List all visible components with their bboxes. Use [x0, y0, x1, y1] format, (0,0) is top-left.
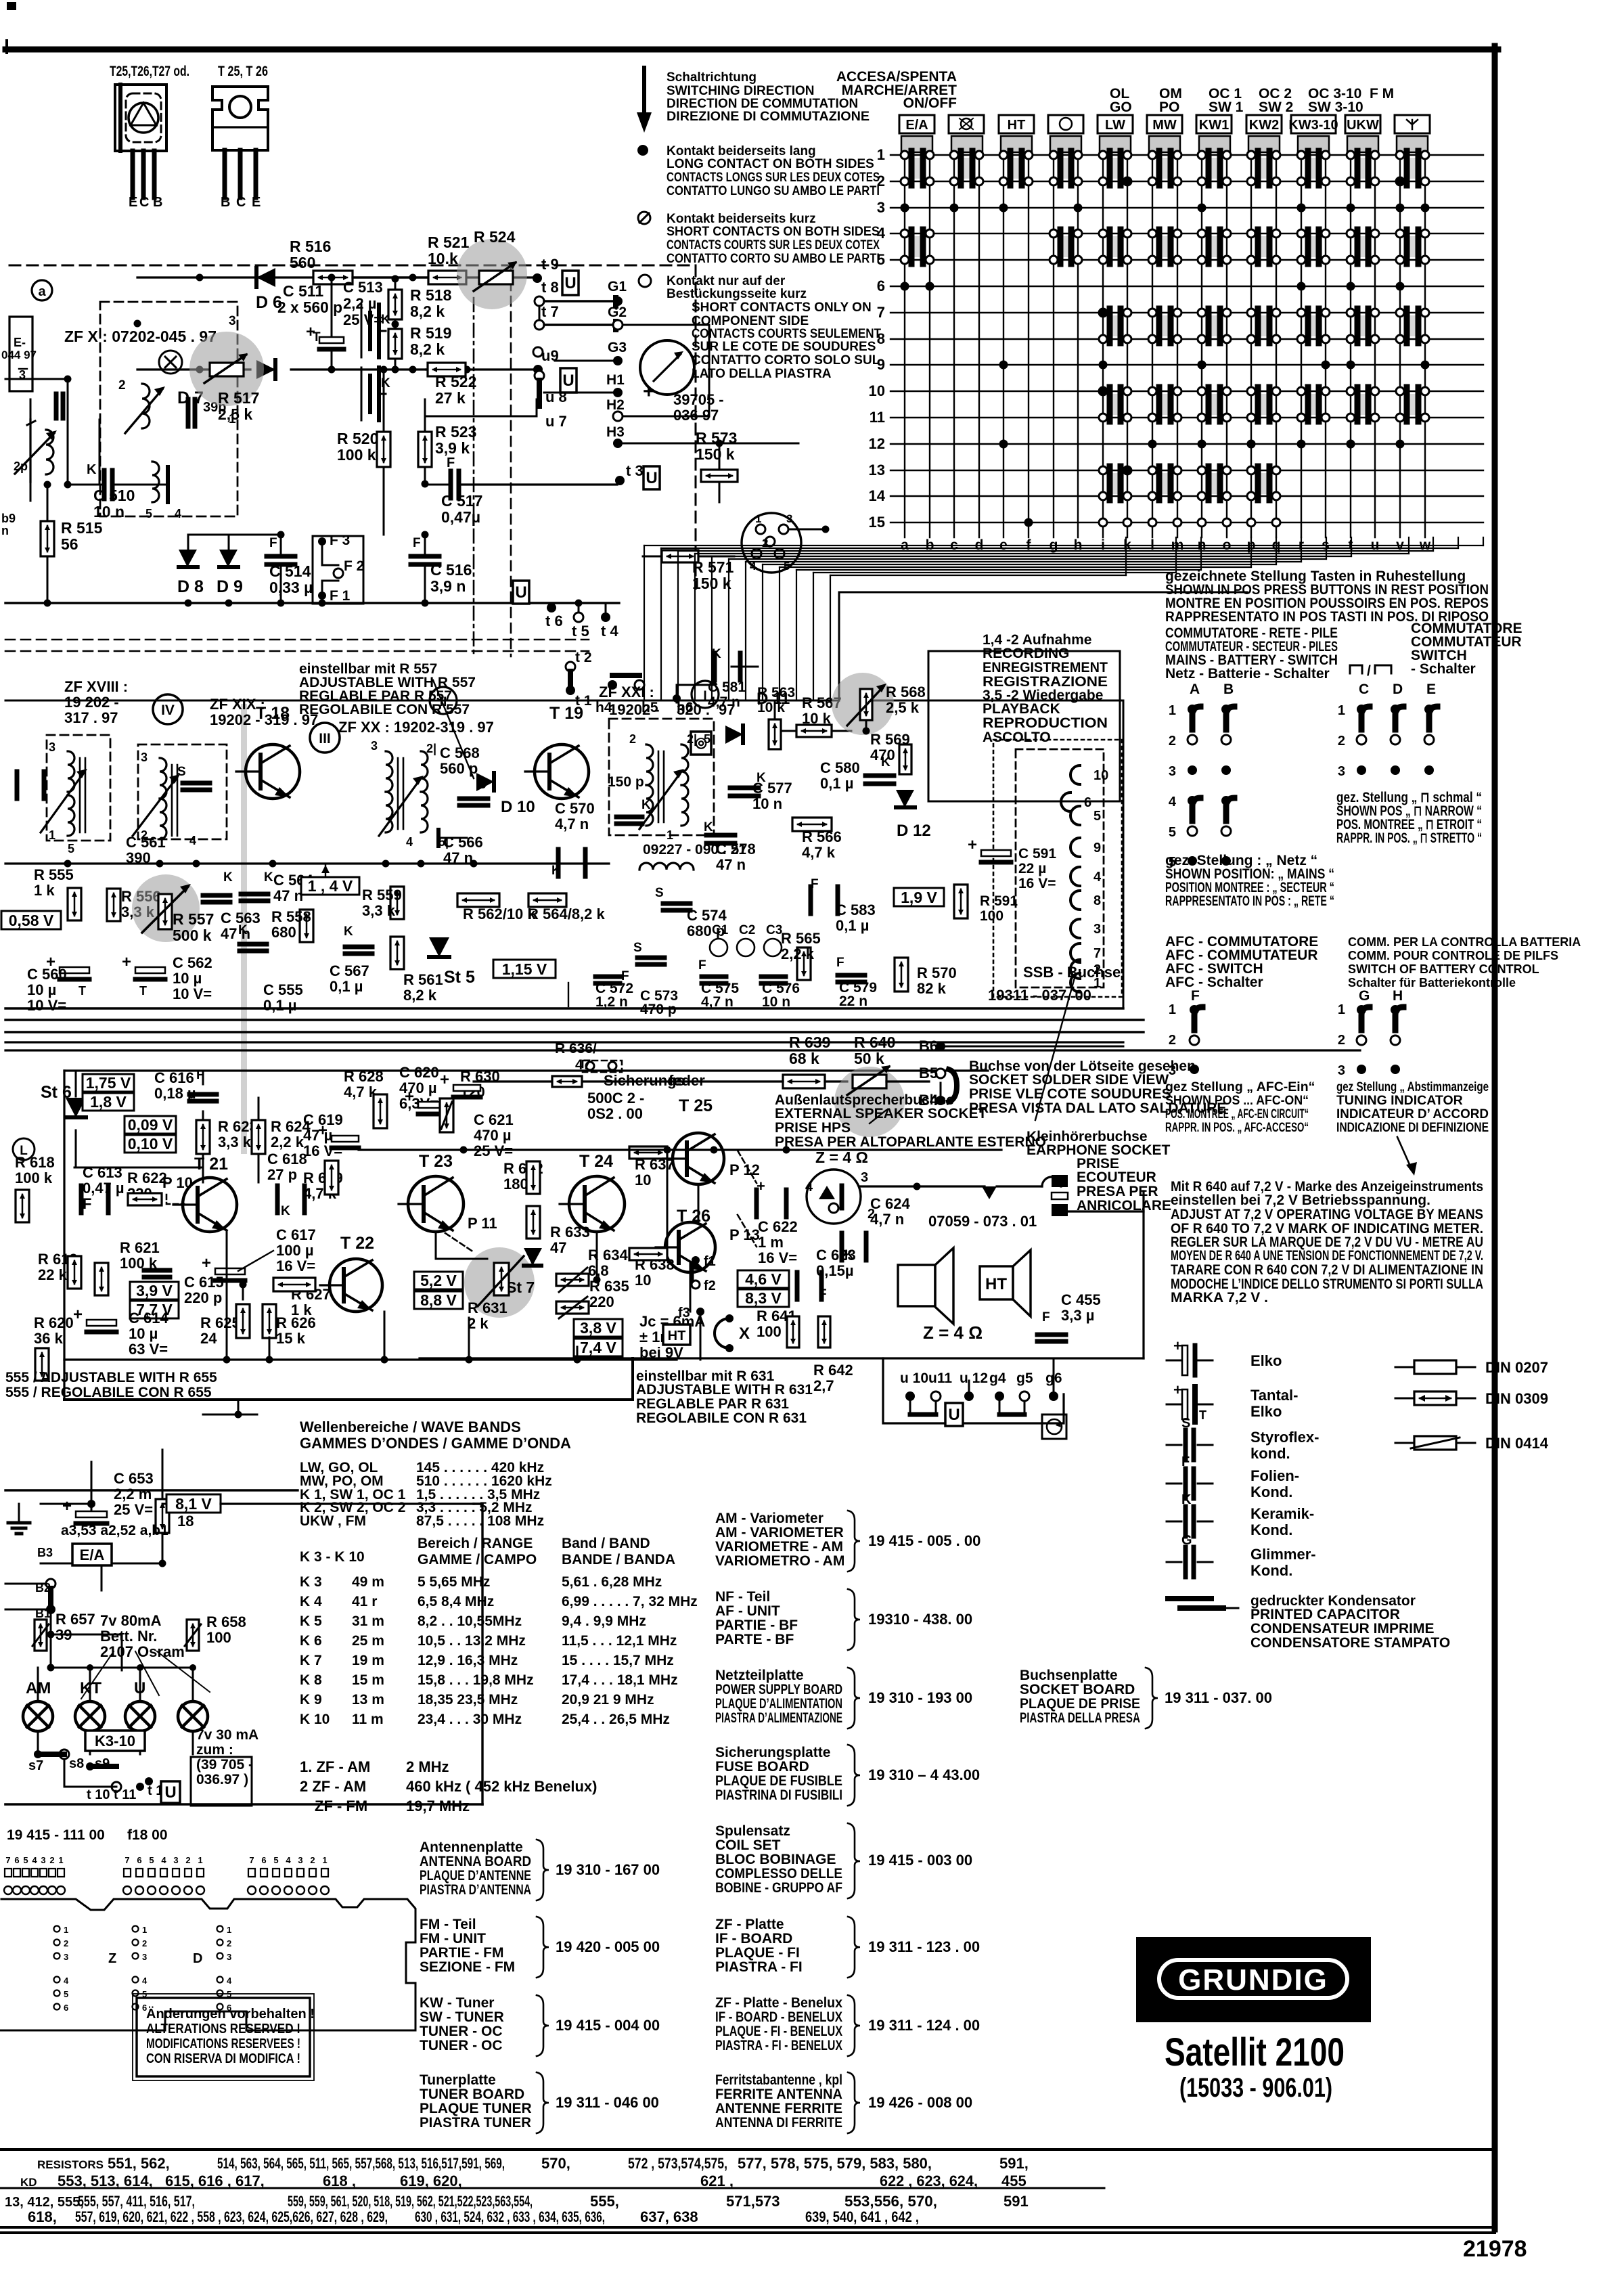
resistor R559	[362, 887, 404, 919]
svg-text:47 n: 47 n	[716, 856, 746, 873]
speaker socket text	[775, 1092, 1046, 1166]
svg-text:F: F	[269, 536, 277, 550]
svg-text:+: +	[440, 1071, 449, 1089]
svg-text:- Schalter: - Schalter	[1411, 661, 1476, 677]
terminal G3	[555, 340, 627, 365]
svg-text:Schalter für Batteriekontrol: Schalter für Batteriekontrolle	[1348, 976, 1516, 989]
svg-text:T 25, T 26: T 25, T 26	[218, 64, 268, 79]
wire after R516	[353, 274, 538, 282]
svg-text:19 311 - 037. 00: 19 311 - 037. 00	[1165, 1689, 1272, 1706]
svg-text:R 569: R 569	[870, 731, 910, 748]
svg-text:PIASTRA TUNER: PIASTRA TUNER	[420, 2115, 531, 2131]
svg-text:K 4: K 4	[300, 1594, 322, 1609]
svg-text:E/A: E/A	[905, 118, 928, 133]
svg-text:MW: MW	[1152, 118, 1177, 133]
capacitor C517	[425, 455, 617, 526]
box U t3	[644, 466, 660, 489]
legend short contact text	[667, 212, 880, 266]
svg-text:R 568: R 568	[886, 684, 926, 700]
svg-text:19 415 - 004 00: 19 415 - 004 00	[556, 2017, 660, 2034]
HT box small	[663, 1324, 690, 1345]
pin 1 label	[229, 412, 236, 426]
fm input extra wires	[5, 376, 99, 502]
svg-text:R 517: R 517	[218, 389, 259, 407]
svg-text:1 k: 1 k	[34, 882, 55, 899]
svg-text:+: +	[318, 1121, 328, 1140]
svg-text:1,75 V: 1,75 V	[86, 1074, 131, 1092]
svg-text:15 m: 15 m	[352, 1672, 384, 1688]
svg-text:19,7 MHz: 19,7 MHz	[406, 1798, 470, 1814]
svg-text:Bereich / RANGE: Bereich / RANGE	[418, 1536, 533, 1551]
svg-text:F: F	[836, 956, 844, 970]
svg-text:ZF - Platte: ZF - Platte	[715, 1917, 784, 1932]
svg-text:T 25: T 25	[679, 1096, 713, 1115]
svg-text:Spulensatz: Spulensatz	[715, 1823, 790, 1839]
speaker 2 HT	[980, 1250, 1031, 1316]
svg-text:E: E	[129, 195, 137, 210]
svg-text:0,1 µ: 0,1 µ	[330, 978, 363, 995]
svg-text:+: +	[968, 836, 977, 854]
switch matrix column letters	[901, 537, 1431, 553]
svg-text:150 k: 150 k	[696, 445, 735, 463]
ZF-AM list rows	[300, 1758, 597, 1814]
cap C613	[81, 1164, 125, 1213]
svg-text:(39 705 -: (39 705 -	[196, 1757, 253, 1773]
svg-text:TARARE CON R 640 CON 7,2 V: TARARE CON R 640 CON 7,2 V DI ALIMENTAZI…	[1171, 1262, 1483, 1278]
svg-text:3,9 k: 3,9 k	[435, 439, 470, 457]
switch matrix header buttons	[899, 115, 1430, 152]
svg-text:Ferritstabantenne , kpl: Ferritstabantenne , kpl	[715, 2072, 842, 2088]
svg-text:+: +	[73, 1306, 83, 1324]
svg-text:R 640: R 640	[854, 1033, 895, 1051]
legend battery control text	[1348, 935, 1581, 989]
svg-text:1: 1	[1169, 1002, 1176, 1017]
svg-text:C 560: C 560	[27, 966, 67, 983]
resistor R516	[290, 238, 353, 284]
svg-text:ZF XXI :: ZF XXI :	[599, 684, 654, 700]
svg-text:F: F	[1181, 1454, 1190, 1469]
svg-text:E/A: E/A	[80, 1546, 105, 1563]
svg-text:100 k: 100 k	[337, 446, 376, 464]
cap C570	[551, 800, 595, 878]
svg-text:t 10: t 10	[87, 1787, 110, 1802]
svg-text:F: F	[413, 536, 421, 550]
svg-text:U: U	[562, 372, 574, 390]
svg-text:1: 1	[198, 1855, 202, 1865]
svg-text:G: G	[1181, 1533, 1192, 1548]
terminals u10 u11 u12 g4 g5 g6	[900, 1358, 1062, 1414]
svg-text:R 618: R 618	[15, 1154, 55, 1171]
svg-text:6: 6	[261, 1855, 266, 1865]
svg-text:6: 6	[137, 1855, 141, 1865]
svg-text:H3: H3	[606, 424, 625, 440]
pot R568 blob	[832, 673, 926, 735]
resistor R567	[778, 694, 851, 737]
cap 150p	[608, 774, 651, 824]
svg-text:PIASTRA D’ANTENNA: PIASTRA D’ANTENNA	[420, 1882, 531, 1898]
box EA	[72, 1544, 112, 1565]
svg-text:R 521: R 521	[428, 233, 470, 251]
cap C617	[202, 1226, 316, 1280]
svg-text:C 618: C 618	[267, 1151, 307, 1167]
capacitor C511 trimmer upper	[361, 305, 390, 357]
cap C619	[303, 1111, 359, 1159]
svg-text:9: 9	[877, 356, 885, 373]
svg-text:R 620: R 620	[34, 1314, 74, 1331]
svg-text:2: 2	[629, 732, 636, 746]
svg-text:zum :: zum :	[196, 1742, 233, 1758]
svg-text:RECORDING: RECORDING	[983, 646, 1069, 661]
node a terminal	[32, 280, 52, 300]
svg-text:18: 18	[177, 1513, 194, 1530]
svg-text:SEZIONE - FM: SEZIONE - FM	[420, 1959, 515, 1975]
C511 label	[277, 282, 342, 316]
svg-text:8,1 V: 8,1 V	[175, 1495, 212, 1513]
satellit number	[1179, 2073, 1332, 2103]
svg-text:1: 1	[49, 828, 55, 842]
svg-text:6,99 . . . . . 7, 32 MHz: 6,99 . . . . . 7, 32 MHz	[562, 1594, 698, 1609]
svg-text:T 26: T 26	[677, 1207, 710, 1226]
svg-text:C 617: C 617	[276, 1226, 316, 1243]
svg-text:DIN 0309: DIN 0309	[1485, 1390, 1548, 1407]
svg-text:PRISE HPS: PRISE HPS	[775, 1120, 851, 1136]
svg-text:R 626: R 626	[276, 1314, 316, 1331]
svg-text:AM - VARIOMETER: AM - VARIOMETER	[715, 1525, 844, 1540]
cap C455	[1037, 1291, 1101, 1341]
electrolytic C513	[306, 274, 383, 374]
cap C579	[836, 956, 877, 1009]
svg-text:SSB - Buchse: SSB - Buchse	[1023, 964, 1121, 981]
svg-text:t 4: t 4	[601, 623, 618, 640]
svg-text:CONTACTS COURTS SUR LES DEUX C: CONTACTS COURTS SUR LES DEUX COTEX	[667, 238, 880, 252]
svg-text:C 455: C 455	[1061, 1291, 1101, 1308]
voltage 1.4V	[301, 864, 359, 895]
legend contact diagram C D E	[1338, 682, 1437, 779]
svg-text:7: 7	[249, 1855, 254, 1865]
svg-text:FM - UNIT: FM - UNIT	[420, 1931, 486, 1946]
svg-text:LATO DELLA PIASTRA: LATO DELLA PIASTRA	[692, 367, 832, 381]
svg-text:Antennenplatte: Antennenplatte	[420, 1840, 523, 1855]
svg-text:25 V=: 25 V=	[343, 311, 382, 328]
parts ferrite antenna	[715, 2072, 972, 2133]
svg-text:21978: 21978	[1463, 2236, 1527, 2262]
svg-text:St 5: St 5	[444, 968, 475, 987]
transistor T26	[656, 1207, 715, 1272]
svg-text:3: 3	[1338, 1063, 1345, 1078]
svg-text:ANTENNE FERRITE: ANTENNE FERRITE	[715, 2101, 842, 2116]
svg-text:19310 - 438. 00: 19310 - 438. 00	[868, 1611, 972, 1628]
svg-text:R 516: R 516	[290, 238, 331, 255]
cap C566	[438, 830, 483, 866]
SSB socket contacts	[1061, 765, 1108, 992]
svg-text:PLAQUE DE PRISE: PLAQUE DE PRISE	[1020, 1696, 1140, 1712]
legend commutatore switch text	[1411, 621, 1522, 677]
svg-text:K 9: K 9	[300, 1692, 322, 1708]
svg-text:4,6 V: 4,6 V	[745, 1270, 782, 1288]
svg-text:C: C	[1359, 682, 1369, 697]
resistor R633	[526, 1206, 590, 1256]
svg-text:3: 3	[49, 740, 55, 754]
lamp AM	[23, 1679, 53, 1731]
svg-text:10: 10	[869, 382, 885, 399]
cap C623	[797, 1247, 856, 1301]
cap C572	[595, 977, 633, 1010]
svg-text:220 p: 220 p	[184, 1289, 222, 1306]
svg-text:39: 39	[55, 1626, 72, 1643]
svg-text:R 634: R 634	[588, 1247, 628, 1264]
svg-text:g5: g5	[1016, 1371, 1033, 1386]
svg-text:CONTATTO CORTO SU AMBO LE PART: CONTATTO CORTO SU AMBO LE PARTI	[667, 252, 880, 266]
svg-text:2: 2	[118, 378, 126, 393]
svg-text:t 9: t 9	[541, 256, 559, 273]
svg-text:NF - Teil: NF - Teil	[715, 1589, 770, 1605]
cap C653	[62, 1470, 154, 1523]
svg-text:25 m: 25 m	[352, 1633, 384, 1649]
svg-text:7: 7	[5, 1855, 10, 1865]
resistor R623	[196, 1118, 258, 1154]
GRUNDIG logo	[1136, 1937, 1371, 2022]
legend gez stellung netz text	[1165, 853, 1334, 909]
svg-text:a: a	[38, 284, 46, 299]
svg-text:15,8 . . . 19,8 MHz: 15,8 . . . 19,8 MHz	[418, 1672, 534, 1688]
svg-text:SOCKET SOLDER SIDE VIEW: SOCKET SOLDER SIDE VIEW	[969, 1072, 1169, 1088]
svg-text:15 k: 15 k	[276, 1330, 306, 1347]
svg-text:R 520: R 520	[337, 430, 378, 447]
svg-text:ENREGISTREMENT: ENREGISTREMENT	[983, 660, 1108, 675]
svg-text:KW2: KW2	[1249, 118, 1279, 133]
svg-text:Styroflex-: Styroflex-	[1250, 1429, 1319, 1446]
legend mains battery switch text	[1165, 625, 1338, 682]
svg-text:C 623: C 623	[816, 1247, 856, 1264]
svg-text:10 k: 10 k	[757, 700, 785, 715]
svg-text:F: F	[1042, 1310, 1050, 1324]
earphone socket circle	[805, 1169, 875, 1224]
svg-text:2,7: 2,7	[813, 1377, 834, 1394]
svg-text:C 653: C 653	[114, 1470, 154, 1487]
resistor R619	[38, 1251, 108, 1295]
resistor R591	[954, 885, 1018, 924]
svg-text:K: K	[281, 1204, 290, 1218]
svg-text:49 m: 49 m	[352, 1574, 384, 1590]
legend switching direction arrow	[637, 68, 652, 133]
IF strip outline	[5, 592, 1247, 1006]
svg-text:0,33 µ: 0,33 µ	[269, 579, 313, 596]
diode D6	[256, 268, 282, 312]
wave bands list	[300, 1460, 552, 1529]
anderungen box	[133, 1994, 315, 2080]
svg-text:C 511: C 511	[283, 282, 323, 300]
svg-text:19 420 - 005 00: 19 420 - 005 00	[556, 1938, 660, 1955]
svg-text:4: 4	[406, 835, 413, 849]
svg-text:B: B	[221, 195, 230, 210]
svg-text:T 21: T 21	[194, 1155, 228, 1174]
svg-text:Z = 4 Ω: Z = 4 Ω	[815, 1149, 868, 1166]
svg-text:E-: E-	[14, 336, 26, 349]
svg-text:PIASTRA DELLA PRESA: PIASTRA DELLA PRESA	[1020, 1710, 1140, 1726]
pot R631	[468, 1256, 524, 1332]
parts coil set	[715, 1823, 972, 1898]
svg-text:0,47µ: 0,47µ	[441, 508, 480, 526]
voltage 0.09V 0.10V	[125, 1116, 176, 1153]
legend component-side contact symbol	[639, 275, 651, 287]
svg-text:PARTE - BF: PARTE - BF	[715, 1632, 794, 1647]
resistor R569	[870, 731, 911, 774]
svg-text:10,5 . . 13,2 MHz: 10,5 . . 13,2 MHz	[418, 1633, 526, 1649]
svg-text:R 625: R 625	[200, 1314, 240, 1331]
svg-text:2,2 k: 2,2 k	[781, 945, 815, 962]
svg-text:19 310 – 4 43.00: 19 310 – 4 43.00	[868, 1766, 980, 1783]
svg-text:622 , 623, 624,: 622 , 623, 624,	[880, 2173, 978, 2189]
svg-text:T 24: T 24	[579, 1152, 613, 1171]
node L circle	[13, 1138, 35, 1160]
svg-text:HT: HT	[668, 1329, 686, 1343]
voltage 0.58V	[1, 911, 61, 929]
svg-text:3: 3	[1169, 764, 1176, 779]
svg-text:1: 1	[1338, 1002, 1345, 1017]
svg-text:10: 10	[635, 1272, 651, 1289]
svg-text:F 1: F 1	[330, 588, 351, 604]
svg-text:8,2 k: 8,2 k	[410, 340, 445, 358]
svg-text:1: 1	[64, 1925, 68, 1935]
X contact	[715, 1314, 750, 1352]
svg-text:7v 30 mA: 7v 30 mA	[196, 1727, 258, 1743]
resistor R570	[895, 958, 957, 997]
svg-text:REGLABLE PAR R 631: REGLABLE PAR R 631	[636, 1396, 789, 1412]
legend AFC position text	[1165, 1079, 1315, 1135]
svg-text:19 310 - 193 00: 19 310 - 193 00	[868, 1689, 972, 1706]
svg-text:10 µ: 10 µ	[129, 1325, 158, 1342]
svg-text:C 624: C 624	[870, 1195, 910, 1212]
svg-text:GAMMES D’ONDES / GAMME D’OND: GAMMES D’ONDES / GAMME D’ONDA	[300, 1435, 571, 1452]
legend gez stellung schmal text	[1336, 790, 1482, 846]
svg-text:Wellenbereiche / WAVE BANDS: Wellenbereiche / WAVE BANDS	[300, 1419, 521, 1435]
svg-text:(15033 - 906.01): (15033 - 906.01)	[1179, 2073, 1332, 2103]
parts fm unit	[420, 1917, 660, 1978]
svg-text:R 628: R 628	[344, 1068, 384, 1085]
svg-text:0,1 µ: 0,1 µ	[263, 997, 296, 1014]
current note	[639, 1313, 705, 1361]
svg-text:C2: C2	[739, 923, 755, 937]
svg-text:MOYEN DE R 640 A UNE TENSI: MOYEN DE R 640 A UNE TENSION DE FONCTION…	[1171, 1248, 1483, 1264]
svg-text:5,61 . 6,28 MHz: 5,61 . 6,28 MHz	[562, 1574, 662, 1590]
svg-text:317 . 97: 317 . 97	[64, 709, 118, 726]
cap C560	[27, 953, 89, 1014]
svg-text:s8: s8	[69, 1756, 84, 1771]
svg-text:4: 4	[805, 1180, 813, 1195]
svg-text:1: 1	[227, 1925, 231, 1935]
resistor R564	[528, 893, 606, 922]
bottom table bottom line	[0, 2227, 1495, 2233]
capacitor legend Styroflex	[1167, 1416, 1319, 1462]
svg-text:Kontakt beiderseits lang: Kontakt beiderseits lang	[667, 144, 816, 158]
svg-text:1 , 4 V: 1 , 4 V	[308, 877, 353, 895]
resistor R563	[757, 685, 795, 749]
svg-text:12,9 . 16,3 MHz: 12,9 . 16,3 MHz	[418, 1653, 518, 1668]
legend short contact symbol	[638, 212, 650, 224]
printed capacitor legend	[1168, 1593, 1450, 1651]
svg-text:500C 2 -: 500C 2 -	[587, 1090, 644, 1107]
svg-text:KW3-10: KW3-10	[1288, 118, 1338, 133]
svg-text:INDICATEUR D’ ACCORD: INDICATEUR D’ ACCORD	[1336, 1107, 1489, 1121]
svg-text:19 415 - 005 . 00: 19 415 - 005 . 00	[868, 1532, 980, 1549]
K3-K10 table rows	[300, 1574, 698, 1727]
svg-text:3: 3	[1093, 922, 1101, 937]
svg-text:3,3 k: 3,3 k	[362, 902, 396, 919]
svg-text:2: 2	[1169, 1033, 1176, 1048]
svg-text:3: 3	[877, 199, 885, 216]
svg-text:11 m: 11 m	[352, 1712, 384, 1727]
legend AFC switch text	[1165, 934, 1318, 990]
svg-text:31 m: 31 m	[352, 1613, 384, 1629]
svg-text:13 m: 13 m	[352, 1692, 384, 1708]
svg-text:C3: C3	[766, 923, 782, 937]
svg-text:RAPPR. IN POS. „ AFC-ACCESO“: RAPPR. IN POS. „ AFC-ACCESO“	[1165, 1120, 1309, 1135]
svg-text:COMPLESSO DELLE: COMPLESSO DELLE	[715, 1866, 842, 1881]
svg-text:SUR LE COTE DE SOUDURES: SUR LE COTE DE SOUDURES	[692, 340, 876, 354]
svg-text:D 12: D 12	[897, 822, 931, 840]
svg-text:PARTIE - BF: PARTIE - BF	[715, 1618, 798, 1633]
svg-text:630 , 631, 524, 632 , 633 , 63: 630 , 631, 524, 632 , 633 , 634, 635, 63…	[415, 2208, 605, 2225]
svg-text:25,4 . . 26,5 MHz: 25,4 . . 26,5 MHz	[562, 1712, 670, 1727]
svg-text:B5: B5	[919, 1065, 938, 1082]
P12 P13 labels	[729, 1151, 760, 1247]
cap C621	[440, 1071, 514, 1159]
svg-text:CONTATTO CORTO SOLO SUL: CONTATTO CORTO SOLO SUL	[692, 353, 880, 367]
resistor R641	[757, 1308, 799, 1347]
switch matrix contacts rows 1-2	[909, 151, 1421, 185]
resistor R629	[303, 1161, 343, 1202]
svg-text:1: 1	[58, 1855, 63, 1865]
svg-text:1: 1	[322, 1855, 327, 1865]
transistor T22	[320, 1234, 382, 1312]
ZF XVIII label	[64, 678, 183, 726]
note 7v30mA	[191, 1727, 258, 1806]
svg-text:0,58 V: 0,58 V	[9, 912, 54, 929]
svg-text:24: 24	[200, 1330, 217, 1347]
wire C513	[0, 0, 1, 1]
vertical feeds left of matrix	[644, 545, 830, 700]
svg-text:Kond.: Kond.	[1250, 1521, 1292, 1538]
svg-text:Z: Z	[108, 1951, 116, 1966]
svg-text:R 566: R 566	[802, 828, 842, 845]
svg-text:591: 591	[1003, 2193, 1029, 2210]
svg-text:/: /	[1367, 663, 1371, 679]
recording playback text	[983, 632, 1108, 745]
page frame top rule	[5, 41, 1498, 53]
parts socket board	[1020, 1668, 1272, 1729]
svg-text:0,09 V: 0,09 V	[128, 1116, 173, 1134]
svg-text:10 µ: 10 µ	[173, 970, 202, 987]
svg-text:2: 2	[49, 1855, 54, 1865]
cap C561	[17, 772, 166, 866]
svg-text:8,8 V: 8,8 V	[420, 1291, 457, 1309]
svg-text:553, 513, 614,: 553, 513, 614,	[58, 2173, 153, 2189]
svg-text:1: 1	[667, 828, 673, 842]
svg-text:4,7 n: 4,7 n	[555, 816, 589, 832]
svg-text:ZF XX : 19202-319 . 97: ZF XX : 19202-319 . 97	[338, 719, 494, 736]
svg-text:9,4 . 9,9 MHz: 9,4 . 9,9 MHz	[562, 1613, 646, 1629]
svg-text:C 577: C 577	[752, 780, 792, 797]
bottom table row3 numbers	[5, 2193, 1029, 2210]
svg-text:CONDENSATORE STAMPATO: CONDENSATORE STAMPATO	[1250, 1635, 1450, 1651]
svg-text:PRESA VISTA DAL LATO SALDA: PRESA VISTA DAL LATO SALDATURE	[969, 1100, 1226, 1116]
switch matrix ON/OFF label	[836, 69, 957, 111]
resistor R562	[457, 893, 536, 922]
ZF XIX label	[210, 696, 340, 753]
resistor R518	[388, 275, 452, 321]
svg-text:3: 3	[41, 1855, 45, 1865]
cap C614	[73, 1306, 168, 1358]
